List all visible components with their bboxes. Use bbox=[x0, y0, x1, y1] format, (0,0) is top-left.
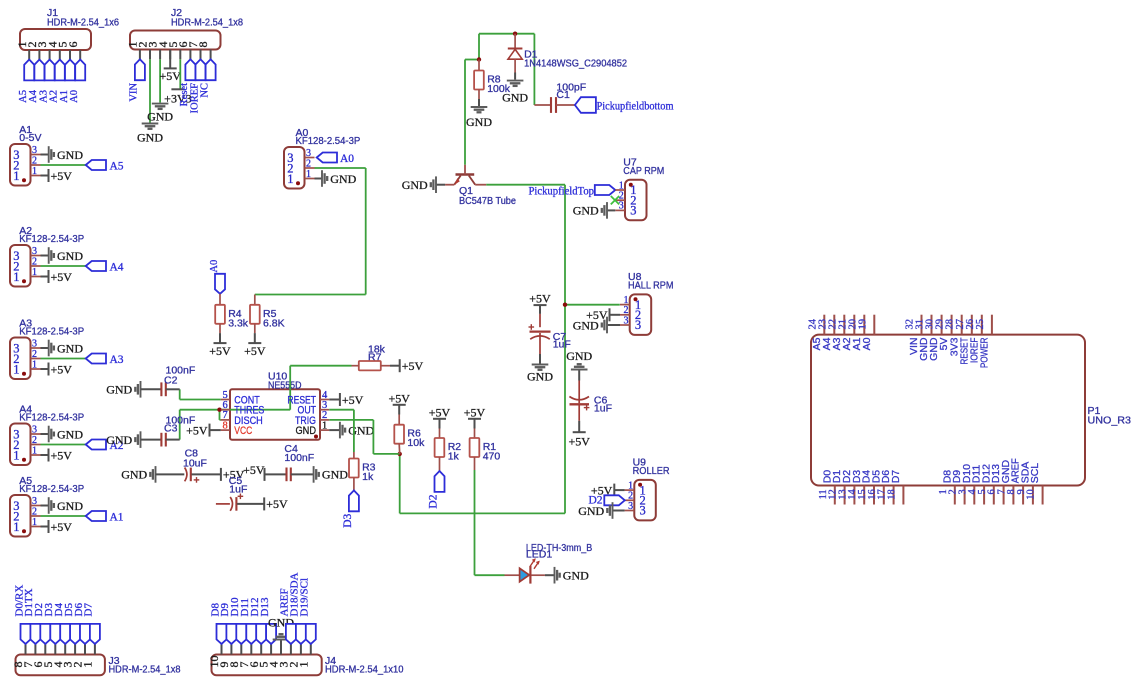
svg-text:1: 1 bbox=[81, 662, 95, 668]
svg-text:2: 2 bbox=[32, 155, 37, 166]
svg-text:A5: A5 bbox=[110, 160, 124, 172]
svg-text:+5V: +5V bbox=[51, 362, 73, 376]
svg-text:100nF: 100nF bbox=[284, 452, 314, 464]
svg-text:+5V: +5V bbox=[568, 435, 590, 449]
svg-text:GND: GND bbox=[57, 499, 83, 513]
svg-text:3: 3 bbox=[32, 145, 37, 156]
svg-text:1: 1 bbox=[32, 445, 37, 456]
svg-text:BC547B Tube: BC547B Tube bbox=[459, 195, 516, 207]
svg-text:1: 1 bbox=[13, 169, 19, 183]
svg-text:ROLLER: ROLLER bbox=[633, 465, 670, 477]
svg-text:+5V: +5V bbox=[402, 359, 424, 373]
svg-text:3: 3 bbox=[635, 318, 641, 332]
svg-text:+5V: +5V bbox=[464, 405, 486, 419]
svg-text:D7: D7 bbox=[890, 470, 902, 484]
svg-text:SCL: SCL bbox=[1029, 463, 1041, 484]
svg-text:2: 2 bbox=[32, 506, 37, 517]
svg-text:KF128-2.54-3P: KF128-2.54-3P bbox=[19, 412, 84, 424]
svg-text:6: 6 bbox=[66, 42, 80, 48]
svg-text:GND: GND bbox=[563, 569, 589, 583]
svg-text:1: 1 bbox=[13, 362, 19, 376]
svg-text:+5V: +5V bbox=[266, 497, 288, 511]
svg-text:A0: A0 bbox=[340, 153, 354, 165]
svg-text:8: 8 bbox=[196, 42, 210, 48]
svg-text:100k: 100k bbox=[487, 83, 511, 95]
svg-text:GND: GND bbox=[466, 115, 492, 129]
svg-text:+5V: +5V bbox=[529, 292, 551, 306]
svg-text:1: 1 bbox=[306, 169, 311, 180]
svg-text:10k: 10k bbox=[407, 437, 425, 449]
svg-text:GND: GND bbox=[296, 425, 317, 437]
svg-text:+5V: +5V bbox=[51, 270, 73, 284]
svg-text:GND: GND bbox=[566, 349, 592, 363]
svg-text:HDR-M-2.54_1x10: HDR-M-2.54_1x10 bbox=[325, 664, 404, 676]
svg-text:10: 10 bbox=[1026, 489, 1037, 500]
svg-text:3: 3 bbox=[32, 246, 37, 257]
svg-text:A0: A0 bbox=[861, 337, 873, 350]
svg-text:PickupfieldTop: PickupfieldTop bbox=[529, 185, 595, 197]
svg-text:2: 2 bbox=[32, 435, 37, 446]
svg-text:19: 19 bbox=[857, 319, 868, 330]
svg-text:+5V: +5V bbox=[342, 393, 364, 407]
svg-text:470: 470 bbox=[483, 451, 501, 463]
svg-text:VIN: VIN bbox=[129, 83, 140, 102]
svg-text:1uF: 1uF bbox=[594, 402, 612, 414]
svg-text:1: 1 bbox=[32, 517, 37, 528]
svg-text:+5V: +5V bbox=[209, 344, 231, 358]
svg-text:LED1: LED1 bbox=[526, 549, 552, 561]
svg-text:NC: NC bbox=[199, 83, 210, 98]
svg-text:A0: A0 bbox=[69, 90, 80, 103]
svg-text:HDR-M-2.54_1x8: HDR-M-2.54_1x8 bbox=[109, 664, 181, 676]
svg-text:A1: A1 bbox=[110, 511, 124, 523]
svg-text:GND: GND bbox=[57, 427, 83, 441]
svg-text:3.3k: 3.3k bbox=[228, 317, 249, 329]
svg-text:GND: GND bbox=[402, 178, 428, 192]
svg-text:8: 8 bbox=[223, 420, 228, 431]
svg-text:1: 1 bbox=[32, 359, 37, 370]
svg-text:2: 2 bbox=[32, 256, 37, 267]
svg-text:GND: GND bbox=[330, 172, 356, 186]
svg-text:Pickupfieldbottom: Pickupfieldbottom bbox=[597, 99, 675, 113]
svg-text:1: 1 bbox=[13, 520, 19, 534]
svg-text:3: 3 bbox=[306, 148, 311, 159]
svg-text:3: 3 bbox=[619, 201, 624, 212]
svg-text:6.8K: 6.8K bbox=[263, 317, 285, 329]
svg-text:C2: C2 bbox=[164, 374, 178, 386]
svg-text:A0: A0 bbox=[209, 260, 220, 273]
svg-text:2: 2 bbox=[32, 349, 37, 360]
svg-text:+5V: +5V bbox=[159, 69, 181, 83]
svg-text:UNO_R3: UNO_R3 bbox=[1088, 415, 1132, 427]
svg-text:GND: GND bbox=[527, 370, 553, 384]
svg-text:3: 3 bbox=[630, 204, 636, 218]
svg-text:CAP RPM: CAP RPM bbox=[623, 165, 664, 177]
svg-text:+5V: +5V bbox=[429, 405, 451, 419]
svg-text:D7: D7 bbox=[83, 603, 95, 617]
svg-text:1: 1 bbox=[13, 448, 19, 462]
svg-text:1: 1 bbox=[32, 166, 37, 177]
svg-text:3: 3 bbox=[32, 496, 37, 507]
svg-text:1N4148WSG_C2904852: 1N4148WSG_C2904852 bbox=[524, 57, 627, 69]
svg-text:2: 2 bbox=[306, 158, 311, 169]
svg-text:GND: GND bbox=[573, 318, 599, 332]
svg-text:1: 1 bbox=[32, 267, 37, 278]
svg-text:3: 3 bbox=[32, 338, 37, 349]
svg-text:1: 1 bbox=[287, 172, 293, 186]
svg-text:D2: D2 bbox=[427, 494, 439, 508]
svg-text:3: 3 bbox=[32, 424, 37, 435]
svg-text:+5V: +5V bbox=[243, 463, 265, 477]
svg-text:D3: D3 bbox=[342, 513, 354, 527]
svg-text:0-5V: 0-5V bbox=[19, 132, 41, 144]
svg-text:GND: GND bbox=[106, 433, 132, 447]
svg-text:A3: A3 bbox=[110, 354, 124, 366]
svg-text:POWER: POWER bbox=[979, 337, 991, 368]
svg-text:+5V: +5V bbox=[51, 448, 73, 462]
svg-text:GND: GND bbox=[106, 383, 132, 397]
svg-text:KF128-2.54-3P: KF128-2.54-3P bbox=[296, 135, 361, 147]
svg-text:HDR-M-2.54_1x8: HDR-M-2.54_1x8 bbox=[171, 17, 243, 29]
svg-text:GND: GND bbox=[147, 110, 173, 124]
svg-text:18: 18 bbox=[886, 489, 897, 500]
svg-text:3: 3 bbox=[624, 315, 629, 326]
svg-text:KF128-2.54-3P: KF128-2.54-3P bbox=[19, 483, 84, 495]
svg-text:1k: 1k bbox=[448, 451, 460, 463]
svg-text:1: 1 bbox=[322, 420, 327, 431]
svg-text:+5V: +5V bbox=[51, 520, 73, 534]
svg-text:GND: GND bbox=[322, 468, 348, 482]
svg-text:D13: D13 bbox=[259, 597, 271, 616]
svg-text:GND: GND bbox=[573, 204, 599, 218]
svg-text:C1: C1 bbox=[556, 89, 570, 101]
svg-text:+5V: +5V bbox=[51, 169, 73, 183]
svg-text:HDR-M-2.54_1x6: HDR-M-2.54_1x6 bbox=[47, 17, 119, 29]
svg-text:3: 3 bbox=[640, 504, 646, 518]
svg-text:+5V: +5V bbox=[388, 391, 410, 405]
svg-text:KF128-2.54-3P: KF128-2.54-3P bbox=[19, 233, 84, 245]
svg-text:GND: GND bbox=[57, 341, 83, 355]
svg-text:GND: GND bbox=[348, 423, 374, 437]
svg-text:GND: GND bbox=[578, 504, 604, 518]
svg-text:GND: GND bbox=[121, 468, 147, 482]
svg-text:10uF: 10uF bbox=[183, 458, 207, 470]
svg-text:1uF: 1uF bbox=[229, 484, 247, 496]
svg-text:1k: 1k bbox=[362, 471, 374, 483]
svg-text:KF128-2.54-3P: KF128-2.54-3P bbox=[19, 326, 84, 338]
svg-text:A4: A4 bbox=[110, 261, 124, 273]
svg-text:1: 1 bbox=[13, 270, 19, 284]
svg-text:HALL RPM: HALL RPM bbox=[628, 280, 674, 292]
svg-text:25: 25 bbox=[975, 319, 986, 330]
svg-text:GND: GND bbox=[137, 131, 163, 145]
svg-text:GND: GND bbox=[57, 148, 83, 162]
svg-text:VCC: VCC bbox=[234, 425, 252, 437]
svg-text:+5V: +5V bbox=[244, 344, 266, 358]
svg-text:GND: GND bbox=[57, 249, 83, 263]
svg-text:C3: C3 bbox=[164, 422, 178, 434]
svg-text:NE555D: NE555D bbox=[268, 380, 302, 392]
svg-text:D19/SCl: D19/SCl bbox=[299, 578, 311, 617]
svg-text:1: 1 bbox=[296, 662, 310, 668]
svg-text:3: 3 bbox=[628, 501, 633, 512]
